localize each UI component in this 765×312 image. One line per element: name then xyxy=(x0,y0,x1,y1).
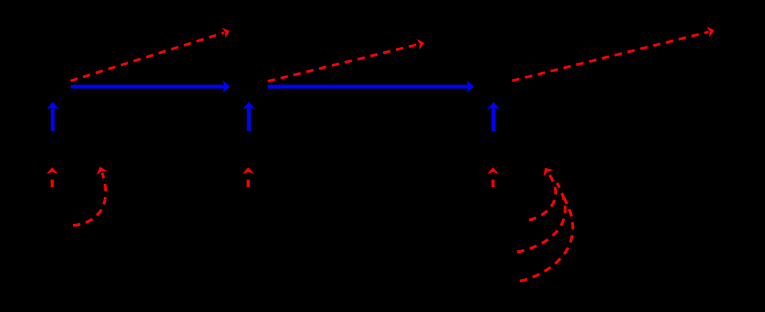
wire blue state arrow up t2 xyxy=(243,102,255,131)
wire blue state arrow up t1 xyxy=(47,102,59,131)
wire red dashed emission arrow t2 xyxy=(268,37,426,81)
wire red dashed emission arrow t1 xyxy=(71,26,232,81)
wire blue transition arrow t1 to t2 xyxy=(71,80,230,92)
wire red dashed feedback arc t1 xyxy=(73,165,108,226)
wire red dashed emission arrow t3 xyxy=(512,25,715,81)
wire blue state arrow up t3 xyxy=(487,102,499,131)
wire red dashed feedback arc t3 middle xyxy=(517,183,565,252)
wire blue transition arrow t2 to t3 xyxy=(268,80,474,92)
wire red dashed input arrow t1 xyxy=(46,167,58,187)
wire red dashed feedback arc t3 outer xyxy=(520,193,573,281)
wire red dashed input arrow t2 xyxy=(242,167,254,187)
wire red dashed input arrow t3 xyxy=(487,167,499,187)
wire red dashed feedback arc t3 inner xyxy=(529,164,556,220)
